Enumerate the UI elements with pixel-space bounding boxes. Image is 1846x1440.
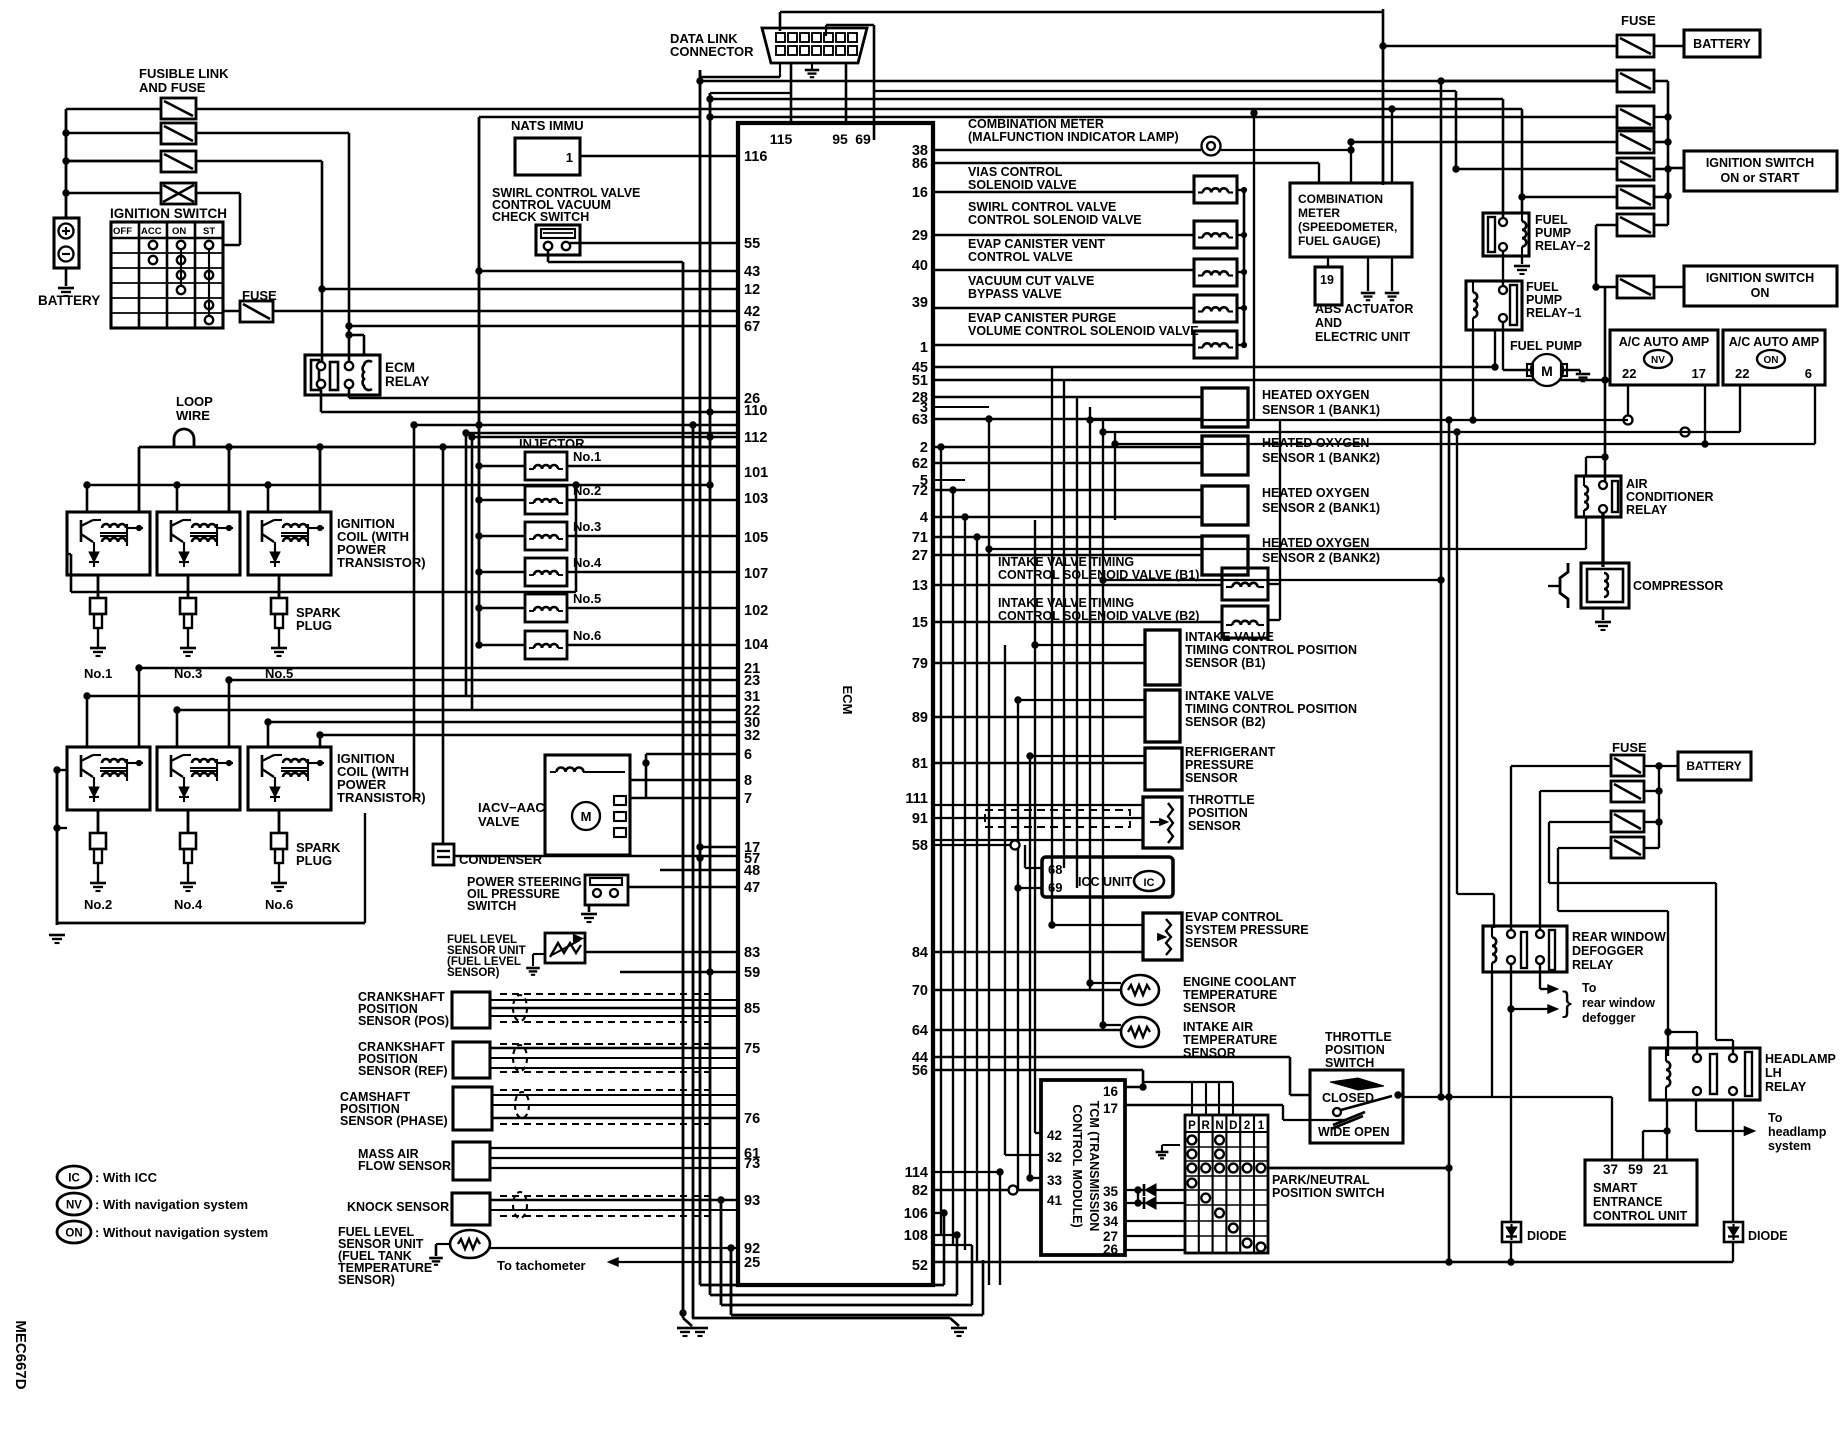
svg-text:INTAKE VALVE TIMING: INTAKE VALVE TIMING [998,555,1134,569]
svg-text:SENSOR: SENSOR [1183,1001,1236,1015]
svg-text:VOLUME CONTROL SOLENOID VALVE: VOLUME CONTROL SOLENOID VALVE [968,324,1199,338]
svg-text:ON: ON [1764,355,1779,366]
svg-text:system: system [1768,1139,1811,1153]
svg-text:59: 59 [1628,1162,1643,1177]
svg-text:76: 76 [744,1111,760,1127]
svg-text:1: 1 [920,340,928,356]
svg-text:LOOP: LOOP [176,394,213,409]
svg-text:VACUUM CUT VALVE: VACUUM CUT VALVE [968,274,1094,288]
svg-text:95: 95 [832,131,848,147]
svg-text:IC: IC [68,1173,80,1185]
svg-text:IGNITION SWITCH: IGNITION SWITCH [110,206,227,221]
svg-text:DEFOGGER: DEFOGGER [1572,944,1644,958]
svg-text:101: 101 [744,465,768,481]
svg-text:TRANSISTOR): TRANSISTOR) [337,555,426,570]
svg-text:FUSE: FUSE [1612,740,1647,755]
svg-text:82: 82 [912,1183,928,1199]
svg-text:No.4: No.4 [573,555,602,570]
svg-text:2: 2 [920,440,928,456]
svg-text:SENSOR (REF): SENSOR (REF) [358,1064,448,1078]
svg-text:AND: AND [1315,316,1342,330]
svg-text:R: R [1202,1120,1211,1132]
svg-text:CONNECTOR: CONNECTOR [670,44,754,59]
svg-text:CONTROL SOLENOID VALVE: CONTROL SOLENOID VALVE [968,213,1142,227]
svg-text:ENTRANCE: ENTRANCE [1593,1195,1662,1209]
svg-text:OFF: OFF [113,226,132,237]
svg-text:56: 56 [912,1063,928,1079]
svg-text:REFRIGERANT: REFRIGERANT [1185,745,1276,759]
svg-text:48: 48 [744,863,760,879]
svg-text:73: 73 [744,1156,760,1172]
svg-text:52: 52 [912,1258,928,1274]
svg-text:55: 55 [744,236,760,252]
svg-text:POSITION SWITCH: POSITION SWITCH [1272,1186,1385,1200]
svg-text:85: 85 [744,1001,760,1017]
svg-text:36: 36 [1103,1199,1119,1214]
svg-text:}: } [1562,986,1572,1019]
svg-text:TRANSISTOR): TRANSISTOR) [337,790,426,805]
svg-text:SENSOR 1 (BANK1): SENSOR 1 (BANK1) [1262,403,1380,417]
svg-text:19: 19 [1320,273,1334,287]
svg-text:2: 2 [1244,1120,1250,1132]
svg-text:112: 112 [744,430,767,446]
svg-text:111: 111 [905,791,928,807]
svg-text:WIDE OPEN: WIDE OPEN [1318,1125,1390,1139]
svg-text:72: 72 [912,483,928,499]
svg-text:32: 32 [744,728,760,744]
svg-text:EVAP CANISTER VENT: EVAP CANISTER VENT [968,237,1105,251]
svg-text:: Without navigation system: : Without navigation system [95,1225,268,1240]
svg-text:25: 25 [744,1255,760,1271]
svg-text:INTAKE VALVE TIMING: INTAKE VALVE TIMING [998,596,1134,610]
svg-text:PARK/NEUTRAL: PARK/NEUTRAL [1272,1173,1370,1187]
svg-text:ON or START: ON or START [1721,171,1800,185]
svg-text:6: 6 [1805,366,1812,381]
svg-text:108: 108 [904,1228,928,1244]
svg-text:No.4: No.4 [174,897,203,912]
svg-text:ST: ST [203,226,215,237]
svg-text:RELAY−2: RELAY−2 [1535,239,1591,253]
svg-text:No.2: No.2 [84,897,112,912]
svg-text:41: 41 [1047,1193,1063,1208]
svg-text:BATTERY: BATTERY [38,293,100,308]
svg-text:64: 64 [912,1023,928,1039]
svg-text:67: 67 [744,319,760,335]
svg-text:86: 86 [912,156,928,172]
svg-text:SENSOR (B1): SENSOR (B1) [1185,656,1266,670]
svg-text:115: 115 [770,131,793,147]
svg-text:ECM: ECM [840,686,855,715]
svg-text:42: 42 [744,304,760,320]
svg-text:P: P [1188,1120,1196,1132]
svg-text:62: 62 [912,456,928,472]
svg-text:PLUG: PLUG [296,853,332,868]
svg-text:INTAKE VALVE: INTAKE VALVE [1185,630,1274,644]
svg-text:CONTROL UNIT: CONTROL UNIT [1593,1209,1688,1223]
svg-text:SWITCH: SWITCH [467,899,516,913]
svg-text:SENSOR (POS): SENSOR (POS) [358,1014,449,1028]
svg-text:16: 16 [912,185,928,201]
svg-text:23: 23 [744,673,760,689]
svg-text:SENSOR: SENSOR [1185,771,1238,785]
svg-text:WIRE: WIRE [176,408,210,423]
svg-text:No.6: No.6 [265,897,293,912]
svg-text:COMPRESSOR: COMPRESSOR [1633,579,1723,593]
svg-text:27: 27 [912,548,928,564]
svg-text:COMBINATION METER: COMBINATION METER [968,117,1104,131]
svg-text:RELAY−1: RELAY−1 [1526,306,1582,320]
svg-text:TIMING CONTROL POSITION: TIMING CONTROL POSITION [1185,643,1357,657]
svg-text:defogger: defogger [1582,1011,1636,1025]
svg-text:: With ICC: : With ICC [95,1170,158,1185]
svg-text:: With navigation system: : With navigation system [95,1197,248,1212]
svg-text:SENSOR): SENSOR) [338,1273,395,1287]
svg-text:43: 43 [744,264,760,280]
svg-text:106: 106 [904,1206,928,1222]
svg-text:LH: LH [1765,1066,1782,1080]
svg-text:AND FUSE: AND FUSE [139,80,206,95]
svg-text:TEMPERATURE: TEMPERATURE [1183,988,1277,1002]
svg-text:FLOW SENSOR: FLOW SENSOR [358,1159,451,1173]
svg-text:16: 16 [1103,1084,1119,1099]
svg-text:No.1: No.1 [84,666,112,681]
svg-text:IGNITION SWITCH: IGNITION SWITCH [1706,271,1814,285]
svg-text:NV: NV [66,1200,82,1212]
svg-text:110: 110 [744,403,767,419]
svg-text:114: 114 [905,1165,928,1181]
svg-text:SWIRL CONTROL VALVE: SWIRL CONTROL VALVE [968,200,1116,214]
svg-text:ON: ON [1751,286,1770,300]
svg-text:ON: ON [65,1228,82,1240]
svg-text:35: 35 [1103,1184,1119,1199]
svg-text:To tachometer: To tachometer [497,1258,586,1273]
svg-text:IACV−AAC: IACV−AAC [478,800,545,815]
svg-text:68: 68 [1048,862,1062,877]
svg-text:KNOCK SENSOR: KNOCK SENSOR [347,1200,449,1214]
svg-text:MEC667D: MEC667D [12,1320,29,1389]
svg-text:(SPEEDOMETER,: (SPEEDOMETER, [1298,220,1397,234]
svg-text:104: 104 [744,637,768,653]
svg-text:PLUG: PLUG [296,618,332,633]
svg-text:51: 51 [912,373,928,389]
svg-text:PRESSURE: PRESSURE [1185,758,1254,772]
svg-text:15: 15 [912,615,928,631]
svg-text:COMBINATION: COMBINATION [1298,192,1383,206]
svg-text:116: 116 [744,149,767,165]
svg-text:26: 26 [1103,1242,1119,1257]
svg-text:POSITION: POSITION [1188,806,1248,820]
svg-text:ICC UNIT: ICC UNIT [1078,875,1133,889]
svg-text:No.5: No.5 [573,591,601,606]
svg-text:81: 81 [912,756,928,772]
svg-text:93: 93 [744,1193,760,1209]
svg-text:22: 22 [1622,366,1636,381]
svg-text:89: 89 [912,710,928,726]
svg-text:SENSOR (B2): SENSOR (B2) [1185,715,1266,729]
svg-text:1: 1 [1258,1120,1265,1132]
svg-text:TCM (TRANSMISSION: TCM (TRANSMISSION [1087,1101,1101,1232]
svg-text:EVAP CONTROL: EVAP CONTROL [1185,910,1284,924]
svg-text:SWITCH: SWITCH [1325,1056,1374,1070]
svg-text:58: 58 [912,838,928,854]
svg-text:39: 39 [912,295,928,311]
svg-text:CONTROL VALVE: CONTROL VALVE [968,250,1073,264]
svg-text:FUEL: FUEL [1535,213,1568,227]
svg-text:70: 70 [912,983,928,999]
svg-text:75: 75 [744,1041,760,1057]
svg-text:ABS ACTUATOR: ABS ACTUATOR [1315,302,1413,316]
svg-text:N: N [1215,1120,1223,1132]
svg-text:CONDENSER: CONDENSER [459,852,543,867]
svg-text:A/C AUTO AMP: A/C AUTO AMP [1729,335,1820,349]
svg-text:INTAKE AIR: INTAKE AIR [1183,1020,1253,1034]
svg-text:IC: IC [1144,877,1155,889]
svg-text:(MALFUNCTION INDICATOR LAMP): (MALFUNCTION INDICATOR LAMP) [968,130,1179,144]
svg-text:TEMPERATURE: TEMPERATURE [1183,1033,1277,1047]
svg-text:M: M [581,809,592,824]
svg-text:RELAY: RELAY [1765,1080,1807,1094]
svg-text:SENSOR: SENSOR [1188,819,1241,833]
svg-text:37: 37 [1603,1162,1618,1177]
svg-text:headlamp: headlamp [1768,1125,1827,1139]
svg-text:CONDITIONER: CONDITIONER [1626,490,1714,504]
svg-text:BATTERY: BATTERY [1686,759,1741,773]
svg-text:HEADLAMP: HEADLAMP [1765,1052,1836,1066]
svg-text:HEATED OXYGEN: HEATED OXYGEN [1262,388,1369,402]
svg-text:SOLENOID VALVE: SOLENOID VALVE [968,178,1077,192]
svg-text:102: 102 [744,603,768,619]
svg-text:83: 83 [744,945,760,961]
svg-text:BATTERY: BATTERY [1693,37,1751,51]
svg-text:VIAS CONTROL: VIAS CONTROL [968,165,1063,179]
svg-text:INTAKE VALVE: INTAKE VALVE [1185,689,1274,703]
svg-text:40: 40 [912,258,928,274]
svg-text:THROTTLE: THROTTLE [1325,1030,1392,1044]
svg-text:33: 33 [1047,1173,1063,1188]
svg-text:69: 69 [1048,880,1062,895]
svg-text:SENSOR): SENSOR) [447,967,500,979]
svg-text:ECM: ECM [385,360,415,375]
svg-text:A/C AUTO AMP: A/C AUTO AMP [1619,335,1710,349]
svg-text:CONTROL MODULE): CONTROL MODULE) [1070,1104,1084,1227]
svg-text:HEATED OXYGEN: HEATED OXYGEN [1262,486,1369,500]
svg-text:RELAY: RELAY [385,374,430,389]
svg-text:EVAP CANISTER PURGE: EVAP CANISTER PURGE [968,311,1116,325]
svg-text:12: 12 [744,282,760,298]
svg-text:103: 103 [744,491,768,507]
svg-text:105: 105 [744,530,768,546]
svg-text:No.6: No.6 [573,628,601,643]
svg-text:47: 47 [744,880,760,896]
svg-text:rear window: rear window [1582,996,1655,1010]
svg-text:13: 13 [912,578,928,594]
svg-text:1: 1 [566,150,573,165]
svg-text:7: 7 [744,791,752,807]
svg-text:CHECK SWITCH: CHECK SWITCH [492,210,589,224]
svg-text:ON: ON [172,226,186,237]
svg-text:91: 91 [912,811,928,827]
svg-text:17: 17 [1103,1101,1118,1116]
svg-text:D: D [1229,1120,1237,1132]
svg-text:63: 63 [912,412,928,428]
svg-text:32: 32 [1047,1150,1062,1165]
svg-text:NATS IMMU: NATS IMMU [511,118,584,133]
svg-text:FUSE: FUSE [1621,13,1656,28]
svg-text:NV: NV [1651,355,1665,366]
svg-text:POSITION: POSITION [1325,1043,1385,1057]
svg-text:ENGINE COOLANT: ENGINE COOLANT [1183,975,1297,989]
svg-text:To: To [1582,981,1597,995]
svg-text:59: 59 [744,965,760,981]
svg-text:29: 29 [912,228,928,244]
svg-text:AIR: AIR [1626,477,1648,491]
svg-text:42: 42 [1047,1128,1062,1143]
svg-text:VALVE: VALVE [478,814,520,829]
svg-text:34: 34 [1103,1214,1119,1229]
svg-text:M: M [1541,363,1553,379]
svg-text:4: 4 [920,510,928,526]
svg-text:SYSTEM PRESSURE: SYSTEM PRESSURE [1185,923,1309,937]
svg-text:REAR WINDOW: REAR WINDOW [1572,930,1666,944]
svg-text:PUMP: PUMP [1535,226,1571,240]
svg-text:FUSIBLE LINK: FUSIBLE LINK [139,66,229,81]
svg-text:6: 6 [744,747,752,763]
svg-text:IGNITION SWITCH: IGNITION SWITCH [1706,156,1814,170]
svg-text:17: 17 [1692,366,1706,381]
svg-text:SMART: SMART [1593,1181,1638,1195]
svg-text:RELAY: RELAY [1626,503,1668,517]
svg-text:DIODE: DIODE [1748,1229,1788,1243]
svg-text:PUMP: PUMP [1526,293,1562,307]
svg-text:DIODE: DIODE [1527,1229,1567,1243]
svg-text:ACC: ACC [141,226,162,237]
svg-text:THROTTLE: THROTTLE [1188,793,1255,807]
svg-text:8: 8 [744,773,752,789]
svg-text:79: 79 [912,656,928,672]
svg-text:FUEL PUMP: FUEL PUMP [1510,339,1582,353]
svg-text:To: To [1768,1111,1783,1125]
svg-text:22: 22 [1735,366,1749,381]
svg-text:SENSOR (PHASE): SENSOR (PHASE) [340,1114,448,1128]
svg-text:21: 21 [1653,1162,1669,1177]
svg-text:RELAY: RELAY [1572,958,1614,972]
svg-text:METER: METER [1298,206,1340,220]
svg-text:FUEL: FUEL [1526,280,1559,294]
svg-text:107: 107 [744,566,768,582]
svg-text:No.1: No.1 [573,449,601,464]
svg-text:FUEL GAUGE): FUEL GAUGE) [1298,234,1380,248]
svg-text:84: 84 [912,945,928,961]
svg-text:69: 69 [855,131,871,147]
svg-text:BYPASS VALVE: BYPASS VALVE [968,287,1062,301]
svg-text:71: 71 [912,530,928,546]
svg-text:ELECTRIC UNIT: ELECTRIC UNIT [1315,330,1411,344]
svg-text:SENSOR: SENSOR [1185,936,1238,950]
svg-text:TIMING CONTROL POSITION: TIMING CONTROL POSITION [1185,702,1357,716]
